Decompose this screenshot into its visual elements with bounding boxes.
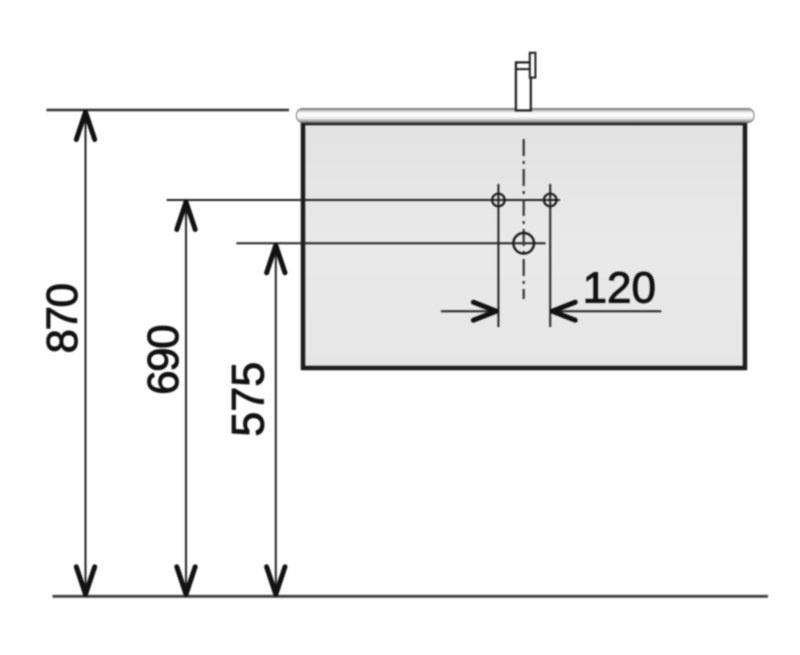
cabinet body — [303, 123, 745, 368]
hole extension line right — [549, 184, 551, 327]
dim 575 extension line — [236, 242, 545, 244]
dim 120 left tail — [441, 310, 497, 312]
dim 870 arrow down — [76, 567, 94, 595]
faucet body — [516, 62, 531, 110]
faucet spout line — [516, 68, 531, 70]
countertop — [297, 109, 755, 123]
hole left — [492, 194, 505, 207]
dim 120 right arrow — [552, 302, 575, 320]
dim 575 shaft — [275, 244, 277, 595]
hole right — [544, 194, 557, 207]
svg-text:120: 120 — [583, 263, 656, 312]
svg-text:870: 870 — [38, 285, 87, 354]
dim 870 shaft — [85, 111, 87, 596]
dim 690 arrow up — [177, 202, 195, 230]
faucet handle — [530, 53, 536, 78]
dim 575 arrow down — [267, 567, 285, 595]
dim 120 left arrow — [473, 302, 496, 320]
drain hole — [513, 233, 534, 254]
svg-text:690: 690 — [139, 326, 188, 395]
dim 690 shaft — [185, 201, 187, 596]
svg-text:575: 575 — [222, 362, 273, 437]
dim 690 extension line — [167, 199, 560, 201]
dim 575 arrow up — [267, 245, 285, 272]
dim 870 arrow up — [76, 112, 94, 140]
dim 690 arrow down — [177, 567, 195, 595]
centerline — [523, 139, 525, 299]
floor reference top line — [46, 109, 289, 111]
floor line bottom — [53, 595, 769, 598]
dim 120 right tail — [550, 310, 661, 312]
hole extension line left — [497, 184, 499, 327]
